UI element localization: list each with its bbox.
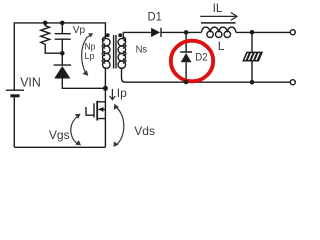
svg-text:Vp: Vp <box>73 25 86 36</box>
svg-text:D2: D2 <box>195 51 207 63</box>
svg-text:Vgs: Vgs <box>49 128 70 142</box>
svg-text:Vds: Vds <box>134 124 155 138</box>
svg-text:Ip: Ip <box>117 86 127 100</box>
svg-text:IL: IL <box>213 1 223 15</box>
svg-text:VIN: VIN <box>20 75 41 90</box>
svg-text:D1: D1 <box>148 10 163 24</box>
svg-text:Lp: Lp <box>85 51 95 62</box>
svg-text:Ns: Ns <box>136 43 148 55</box>
svg-text:L: L <box>218 39 225 53</box>
